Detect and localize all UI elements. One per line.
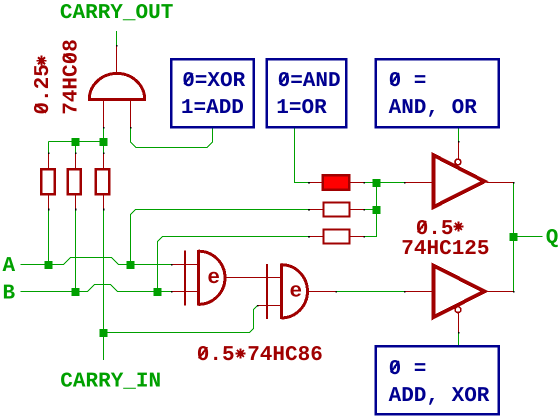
wire buffer2 enable green part [458, 333, 460, 346]
pin dots resistor row2 [308, 209, 310, 211]
svg-text:1=ADD: 1=ADD [181, 97, 244, 120]
value 0.25* (rotated) [32, 56, 55, 115]
pin dots R1 [48, 153, 50, 155]
junction resistor tie row1 [373, 179, 381, 187]
pins filled resistor [309, 182, 364, 184]
junction top bus at R2 [72, 138, 80, 146]
pin dot XOR1 A [171, 264, 173, 266]
pin dot AND output [116, 45, 118, 47]
pins resistor R3 [103, 154, 105, 209]
svg-text:0.25: 0.25 [32, 64, 55, 114]
pin dot buffer1 enable [458, 141, 460, 143]
AND gate 74HC08 dome [89, 73, 144, 99]
junction net A at R1 [45, 261, 53, 269]
pin dot buffer1 in [404, 182, 406, 184]
slash of zero [391, 73, 399, 84]
pins resistor row3 [309, 236, 364, 238]
wire XOR2 out to buffer2 in [336, 291, 404, 293]
svg-text:A: A [3, 255, 16, 278]
XOR gate 1 body [199, 250, 226, 306]
pin buffer2 enable [458, 313, 460, 332]
XOR gate 1 input bar [184, 251, 186, 306]
pin dots filled resistor [308, 182, 310, 184]
resistor highlighted (filled red) [323, 175, 350, 189]
AND gate 74HC08 base [88, 98, 146, 101]
pin dot buffer1 out corner [513, 182, 515, 184]
dot box1 stub [212, 126, 214, 128]
wire R2 bottom to B [75, 209, 77, 291]
wire resistor tie vertical [364, 183, 377, 237]
svg-text:CARRY_IN: CARRY_IN [60, 371, 161, 394]
svg-text:0 =: 0 = [389, 358, 427, 381]
svg-text:Q: Q [546, 227, 559, 250]
wire box2 stub down to filled resistor [295, 129, 309, 183]
junction CARRY_IN at R3 [100, 329, 108, 337]
svg-text:ADD, XOR: ADD, XOR [389, 385, 490, 408]
buffer 74HC125 B triangle [434, 266, 485, 318]
svg-text:74HC86: 74HC86 [247, 344, 323, 367]
slash of zero [391, 361, 399, 372]
svg-text:0 =: 0 = [389, 70, 427, 93]
pin XOR2 carry input [258, 305, 281, 307]
resistor R2 [68, 169, 81, 194]
pin buffer2 input [405, 291, 433, 293]
resistor R3 [96, 169, 109, 194]
wire CARRY_OUT stub [116, 31, 118, 46]
svg-text:1=OR: 1=OR [276, 97, 327, 120]
pin buffer1 output [487, 182, 514, 184]
wire Q branch [514, 236, 543, 238]
wire R3 bottom to CARRY_IN [103, 209, 105, 360]
pin XOR1 output [227, 277, 282, 279]
pin dot AND left [103, 127, 105, 129]
wire filled resistor to buffer1 input [364, 182, 404, 184]
wire box4 stub up [458, 333, 460, 346]
svg-text:0.5: 0.5 [197, 344, 235, 367]
pin dot AND right [130, 127, 132, 129]
svg-text:CARRY_OUT: CARRY_OUT [60, 2, 173, 25]
svg-text:AND, OR: AND, OR [389, 97, 478, 120]
buffer A enable bubble [455, 159, 461, 165]
junction net B at R2 [72, 288, 80, 296]
junction Q [510, 233, 518, 241]
pins resistor R2 [75, 154, 77, 209]
info box 3 [376, 59, 499, 127]
wire CARRY_IN row to XOR2 [104, 306, 258, 333]
dot box3 stub [458, 126, 460, 128]
slash of zero [280, 73, 288, 84]
pins resistor R1 [48, 154, 50, 209]
pin dots resistor row3 [308, 236, 310, 238]
resistor R1 [41, 169, 54, 194]
dot box2 stub [294, 126, 296, 128]
value 74HC08 (rotated) [60, 39, 83, 115]
pin XOR1 input A [172, 264, 199, 266]
info box 2 [267, 59, 346, 127]
pin AND input right [130, 101, 132, 127]
pin buffer2 output [487, 291, 514, 293]
info box 4 [376, 346, 499, 414]
svg-text:e: e [207, 267, 220, 290]
pin AND input left [103, 101, 105, 127]
slash of zero [184, 73, 192, 84]
junction net B at row3 drop [154, 288, 162, 296]
pin dot buffer2 enable [458, 332, 460, 334]
pin dot XOR1 B [171, 291, 173, 293]
svg-text:74HC125: 74HC125 [401, 238, 489, 261]
XOR gate 2 input bar [266, 264, 268, 319]
pin dot XOR2 out [335, 291, 337, 293]
pin buffer1 enable [458, 142, 460, 159]
junction resistor tie row2 [373, 206, 381, 214]
pin buffer1 input [405, 182, 433, 184]
svg-text:74HC08: 74HC08 [60, 39, 83, 115]
info box 1 [171, 59, 253, 127]
wire AND right pin to box1 [131, 128, 213, 148]
buffer B enable bubble [455, 307, 461, 313]
svg-text:e: e [290, 281, 303, 304]
wire Q net vertical [513, 183, 515, 292]
wire A drop to resistor row2 [131, 210, 309, 265]
dot box4 stub [458, 346, 460, 348]
wire net A [21, 258, 172, 265]
XOR gate 2 body [282, 264, 308, 319]
pin XOR1 input B [172, 291, 199, 293]
pin XOR2 output [309, 291, 336, 293]
wire box3 stub down [458, 129, 460, 142]
pins resistor row2 [309, 209, 364, 211]
wire B drop to resistor row3 [158, 237, 309, 292]
wire top bus [49, 128, 104, 153]
resistor row3 [324, 230, 350, 244]
wire net B [21, 285, 172, 292]
pin dots R2 [75, 153, 77, 155]
pin AND output [116, 46, 118, 74]
pin dot buffer2 out corner [513, 291, 515, 293]
wire R1 bottom to A [48, 209, 50, 264]
junction top bus at R3 / AND left pin [100, 138, 108, 146]
pin dot buffer2 in [404, 291, 406, 293]
pin dot XOR2 carry [257, 305, 259, 307]
buffer 74HC125 A triangle [434, 155, 485, 207]
pin dots R3 [103, 153, 105, 155]
resistor row2 [324, 203, 350, 217]
junction net A at row2 drop [127, 261, 135, 269]
svg-text:B: B [3, 283, 16, 306]
